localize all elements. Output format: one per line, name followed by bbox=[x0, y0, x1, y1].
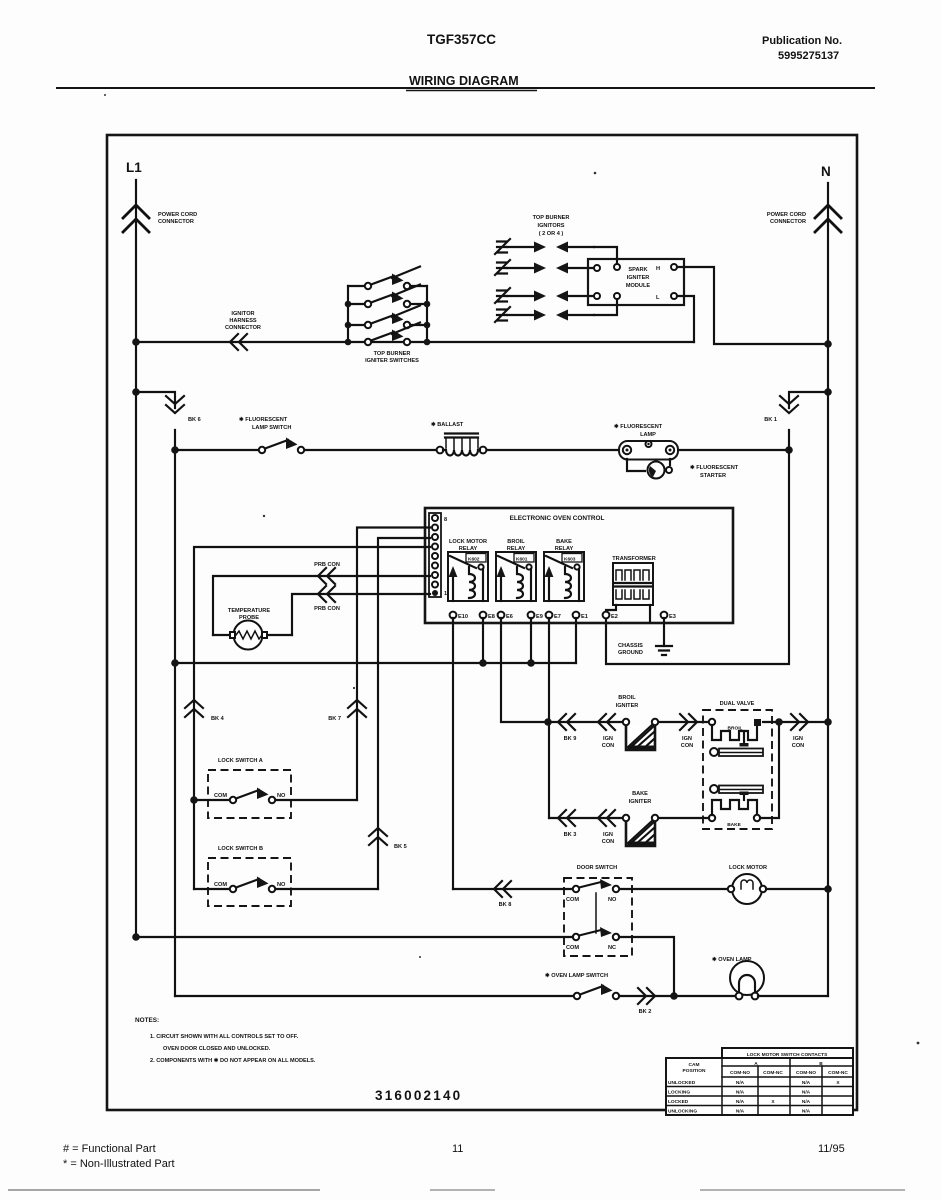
svg-text:SPARK: SPARK bbox=[628, 267, 647, 273]
svg-text:POWER CORD: POWER CORD bbox=[158, 212, 197, 218]
wire module H to N bus bbox=[677, 267, 828, 344]
EOC terminal E10 bbox=[450, 612, 468, 620]
EOC terminal E2 bbox=[603, 612, 618, 620]
wire E9 drop bbox=[530, 618, 532, 663]
svg-text:CHASSIS: CHASSIS bbox=[618, 643, 643, 649]
svg-text:BROIL: BROIL bbox=[507, 539, 525, 545]
wire door NC to oven lamp row bbox=[619, 937, 674, 996]
svg-text:BK 4: BK 4 bbox=[211, 716, 225, 722]
svg-text:UNLOCKING: UNLOCKING bbox=[668, 1109, 697, 1115]
svg-text:COM: COM bbox=[566, 945, 579, 951]
connector BK3 chevrons bbox=[558, 810, 576, 838]
connector BK7 chevrons up bbox=[328, 700, 366, 722]
svg-text:N/A: N/A bbox=[736, 1109, 745, 1115]
scan specks bbox=[104, 94, 919, 1044]
svg-text:CAM: CAM bbox=[689, 1062, 700, 1068]
svg-text:E1: E1 bbox=[581, 614, 588, 620]
spark igniter module U1 bbox=[588, 259, 684, 305]
publication number bbox=[762, 35, 842, 62]
bake row wire bbox=[549, 817, 709, 819]
svg-text:K602: K602 bbox=[468, 557, 480, 563]
svg-text:IGNITER: IGNITER bbox=[616, 703, 639, 709]
wire E7 drop to bake row bbox=[548, 618, 550, 818]
svg-text:BK 8: BK 8 bbox=[499, 902, 512, 908]
svg-text:E7: E7 bbox=[554, 614, 561, 620]
svg-text:POWER CORD: POWER CORD bbox=[767, 212, 806, 218]
junction H wire / N bus bbox=[824, 340, 832, 348]
wire E8 drop bbox=[482, 618, 484, 663]
wire E1 drop bbox=[575, 618, 577, 663]
svg-text:NOTES:: NOTES: bbox=[135, 1017, 159, 1024]
svg-text:E6: E6 bbox=[506, 614, 513, 620]
bake igniter bbox=[623, 791, 658, 846]
fluorescent starter bbox=[627, 459, 739, 479]
svg-text:BK 1: BK 1 bbox=[764, 417, 777, 423]
ignitor harness connector chevrons bbox=[225, 311, 261, 350]
ignition switch 3 bbox=[348, 306, 427, 329]
ballast L1a bbox=[431, 421, 486, 456]
lock switch A bbox=[190, 758, 357, 818]
junction L1 bus / BK6 branch bbox=[132, 388, 140, 396]
svg-text:IGN: IGN bbox=[793, 736, 803, 742]
svg-text:BROIL: BROIL bbox=[618, 695, 636, 701]
oven lamp bbox=[712, 956, 828, 999]
svg-text:BK 5: BK 5 bbox=[394, 844, 407, 850]
wire module L to main row bbox=[677, 296, 694, 342]
svg-text:1. CIRCUIT SHOWN WITH ALL CON: 1. CIRCUIT SHOWN WITH ALL CONTROLS SET T… bbox=[150, 1034, 299, 1040]
svg-text:STARTER: STARTER bbox=[700, 473, 726, 479]
junction L1 / 937 row bbox=[132, 933, 140, 941]
EOC terminal E7 bbox=[546, 612, 561, 620]
svg-text:IGN: IGN bbox=[603, 736, 613, 742]
svg-text:✱ BALLAST: ✱ BALLAST bbox=[431, 421, 464, 428]
svg-text:COM: COM bbox=[214, 882, 227, 888]
label top burner igniter switches bbox=[365, 351, 419, 364]
svg-text:OVEN DOOR CLOSED AND UNLOCKED.: OVEN DOOR CLOSED AND UNLOCKED. bbox=[163, 1046, 271, 1052]
wire pin4 to BK4 bus bbox=[194, 547, 430, 889]
svg-text:N/A: N/A bbox=[802, 1099, 811, 1105]
svg-text:LOCK SWITCH A: LOCK SWITCH A bbox=[218, 758, 263, 764]
junction valve common bbox=[775, 718, 783, 726]
svg-text:BK 2: BK 2 bbox=[639, 1009, 652, 1015]
power cord connector (L1) bbox=[123, 205, 197, 232]
bake valve solenoid bbox=[709, 800, 760, 828]
svg-text:LAMP: LAMP bbox=[640, 432, 656, 438]
wire BK6 bus vertical bbox=[174, 430, 176, 996]
svg-text:PRB CON: PRB CON bbox=[314, 562, 340, 568]
svg-text:COM-NO: COM-NO bbox=[796, 1070, 816, 1076]
lock motor relay K602 bbox=[448, 539, 488, 601]
EOC terminal E9 bbox=[528, 612, 543, 620]
transformer T1 bbox=[606, 556, 656, 622]
wire neutral drop vertical to EOC E2 bbox=[606, 430, 789, 664]
temperature probe RT1 bbox=[213, 608, 292, 650]
wire main L1 row y342 bbox=[136, 341, 694, 343]
svg-text:CONNECTOR: CONNECTOR bbox=[158, 219, 194, 225]
svg-text:MODULE: MODULE bbox=[626, 283, 651, 289]
wire L1 bus vertical bbox=[135, 180, 137, 937]
svg-text:H: H bbox=[656, 266, 660, 272]
broil valve solenoid bbox=[709, 719, 761, 747]
svg-text:11: 11 bbox=[452, 1143, 463, 1155]
notes bbox=[135, 1017, 316, 1064]
svg-text:IGNITORS: IGNITORS bbox=[538, 223, 565, 229]
svg-text:UNLOCKED: UNLOCKED bbox=[668, 1080, 696, 1086]
door switch bbox=[453, 865, 731, 956]
svg-text:LOCK MOTOR: LOCK MOTOR bbox=[729, 865, 767, 871]
svg-text:BAKE: BAKE bbox=[727, 822, 741, 828]
top burner ignitor 1 bbox=[495, 239, 620, 270]
connector BK1 chevrons down bbox=[764, 396, 798, 423]
svg-text:✱ OVEN LAMP SWITCH: ✱ OVEN LAMP SWITCH bbox=[545, 972, 608, 979]
svg-text:LAMP SWITCH: LAMP SWITCH bbox=[252, 425, 291, 431]
wire L1 to BK6 drop bbox=[136, 392, 175, 408]
svg-text:N/A: N/A bbox=[802, 1080, 811, 1086]
bake relay K603 bbox=[544, 539, 584, 601]
wire N bus vertical bbox=[827, 183, 829, 996]
connector BK5 chevrons up bbox=[369, 828, 407, 850]
svg-text:IGN: IGN bbox=[682, 736, 692, 742]
bottom page edge line bbox=[8, 1189, 905, 1191]
svg-text:* = Non-Illustrated Part: * = Non-Illustrated Part bbox=[63, 1158, 175, 1170]
svg-text:LOCKED: LOCKED bbox=[668, 1099, 689, 1105]
svg-text:1: 1 bbox=[444, 591, 447, 597]
svg-text:NO: NO bbox=[277, 793, 286, 799]
svg-text:COM: COM bbox=[214, 793, 227, 799]
svg-text:COM: COM bbox=[566, 897, 579, 903]
svg-text:CONNECTOR: CONNECTOR bbox=[225, 325, 261, 331]
svg-text:TOP BURNER: TOP BURNER bbox=[533, 215, 570, 221]
svg-text:N: N bbox=[821, 164, 831, 179]
svg-text:CON: CON bbox=[602, 743, 614, 749]
chassis ground bbox=[618, 618, 672, 656]
connector BK2 chevrons bbox=[619, 988, 739, 1015]
svg-text:2. COMPONENTS WITH ✱ DO NOT A: 2. COMPONENTS WITH ✱ DO NOT APPEAR ON AL… bbox=[150, 1057, 316, 1064]
fluorescent lamp switch S1 bbox=[239, 416, 304, 453]
junction fluor row / neutral drop bbox=[785, 446, 793, 454]
svg-text:GROUND: GROUND bbox=[618, 650, 643, 656]
svg-text:DUAL VALVE: DUAL VALVE bbox=[720, 701, 755, 707]
fluorescent lamp bbox=[614, 423, 678, 460]
EOC terminal E8 bbox=[480, 612, 495, 620]
svg-text:TEMPERATURE: TEMPERATURE bbox=[228, 608, 270, 614]
svg-text:IGNITER: IGNITER bbox=[629, 799, 652, 805]
wire E6 drop to broil row bbox=[501, 618, 548, 722]
svg-text:N/A: N/A bbox=[736, 1099, 745, 1105]
svg-text:✱ FLUORESCENT: ✱ FLUORESCENT bbox=[614, 423, 663, 430]
svg-text:COM-NC: COM-NC bbox=[828, 1070, 848, 1076]
wire pin3 to lock switch B bus bbox=[378, 538, 430, 889]
wire E10 drop to door switch row bbox=[452, 618, 454, 889]
header rule bbox=[56, 87, 875, 89]
svg-text:BAKE: BAKE bbox=[632, 791, 648, 797]
svg-text:N/A: N/A bbox=[736, 1090, 745, 1096]
svg-text:IGNITER: IGNITER bbox=[627, 275, 650, 281]
diagram border frame bbox=[107, 135, 857, 1110]
svg-text:DOOR SWITCH: DOOR SWITCH bbox=[577, 865, 617, 871]
svg-text:COM-NC: COM-NC bbox=[763, 1070, 783, 1076]
EOC terminal E3 bbox=[661, 612, 676, 620]
svg-text:CONNECTOR: CONNECTOR bbox=[770, 219, 806, 225]
svg-text:PRB CON: PRB CON bbox=[314, 606, 340, 612]
svg-text:TGF357CC: TGF357CC bbox=[427, 32, 496, 47]
ignition switch 4 bbox=[365, 323, 420, 346]
junction E9/663 bbox=[527, 659, 535, 667]
broil valve rod bbox=[710, 748, 763, 756]
svg-text:LOCK SWITCH B: LOCK SWITCH B bbox=[218, 846, 263, 852]
svg-text:TRANSFORMER: TRANSFORMER bbox=[612, 556, 656, 562]
EOC terminal E1 bbox=[573, 612, 588, 620]
svg-text:8: 8 bbox=[444, 517, 447, 523]
connector IGN CON broil right bbox=[680, 714, 697, 749]
lock switch B bbox=[194, 846, 378, 906]
svg-text:( 2 OR 4 ): ( 2 OR 4 ) bbox=[539, 231, 564, 237]
lock motor bbox=[728, 865, 828, 904]
svg-text:✱ FLUORESCENT: ✱ FLUORESCENT bbox=[690, 464, 739, 471]
EOC terminal E6 bbox=[498, 612, 513, 620]
svg-text:5995275137: 5995275137 bbox=[778, 50, 839, 62]
junction BK6/663 bbox=[171, 659, 179, 667]
svg-text:N/A: N/A bbox=[802, 1090, 811, 1096]
junction BK6 / fluor row bbox=[171, 446, 179, 454]
oven lamp switch bbox=[175, 972, 619, 999]
svg-text:316002140: 316002140 bbox=[375, 1088, 462, 1103]
svg-text:K603: K603 bbox=[564, 557, 576, 563]
electronic oven control box bbox=[425, 508, 733, 623]
junction L1/main row bbox=[132, 338, 140, 346]
top burner ignitor 3 bbox=[495, 288, 600, 303]
wire PRB CON upper bbox=[213, 562, 430, 635]
ignition switch 1 bbox=[348, 267, 427, 290]
broil row wire bbox=[548, 721, 828, 723]
svg-text:N/A: N/A bbox=[802, 1109, 811, 1115]
svg-text:IGN: IGN bbox=[603, 832, 613, 838]
junction E8/663 bbox=[479, 659, 487, 667]
svg-text:NO: NO bbox=[277, 882, 286, 888]
svg-text:K601: K601 bbox=[516, 557, 528, 563]
svg-text:COM-NO: COM-NO bbox=[730, 1070, 750, 1076]
svg-text:TOP BURNER: TOP BURNER bbox=[374, 351, 411, 357]
svg-text:BK 3: BK 3 bbox=[564, 832, 577, 838]
connector BK9 chevrons bbox=[558, 714, 576, 742]
footer legend bbox=[63, 1143, 175, 1170]
svg-text:IGNITOR: IGNITOR bbox=[231, 311, 254, 317]
svg-text:IGNITER SWITCHES: IGNITER SWITCHES bbox=[365, 358, 419, 364]
svg-text:E3: E3 bbox=[669, 614, 676, 620]
svg-text:✱ FLUORESCENT: ✱ FLUORESCENT bbox=[239, 416, 288, 423]
svg-text:NC: NC bbox=[608, 945, 616, 951]
label top burner ignitors bbox=[533, 215, 570, 237]
svg-text:PROBE: PROBE bbox=[239, 615, 259, 621]
junction lock motor / N bus bbox=[824, 885, 832, 893]
svg-text:E9: E9 bbox=[536, 614, 543, 620]
svg-text:Publication No.: Publication No. bbox=[762, 35, 842, 47]
junction oven lamp row / door NC drop bbox=[670, 992, 678, 1000]
svg-text:CON: CON bbox=[602, 839, 614, 845]
wire PRB CON lower bbox=[292, 586, 430, 635]
svg-text:L: L bbox=[656, 295, 660, 301]
svg-text:POSITION: POSITION bbox=[683, 1068, 706, 1074]
svg-text:BK 9: BK 9 bbox=[564, 736, 577, 742]
svg-text:BK 6: BK 6 bbox=[188, 417, 201, 423]
svg-text:N/A: N/A bbox=[736, 1080, 745, 1086]
svg-text:CON: CON bbox=[792, 743, 804, 749]
svg-text:11/95: 11/95 bbox=[818, 1143, 845, 1155]
top burner ignitor 4 bbox=[495, 293, 620, 322]
svg-text:BROIL: BROIL bbox=[728, 726, 743, 732]
junction N bus / BK1 branch bbox=[824, 388, 832, 396]
wire common row y663 bbox=[175, 662, 576, 664]
svg-text:WIRING DIAGRAM: WIRING DIAGRAM bbox=[409, 74, 519, 88]
svg-text:BAKE: BAKE bbox=[556, 539, 572, 545]
wire N bus to BK1 drop bbox=[789, 392, 828, 408]
svg-text:E10: E10 bbox=[458, 614, 468, 620]
connector IGN CON broil left bbox=[598, 714, 615, 749]
ignition switch 2 bbox=[348, 285, 427, 308]
svg-text:E2: E2 bbox=[611, 614, 618, 620]
EOC connector strip P1 bbox=[429, 513, 447, 597]
power cord connector (N) bbox=[767, 205, 841, 232]
connector BK4 chevrons up bbox=[185, 700, 225, 722]
svg-text:CON: CON bbox=[681, 743, 693, 749]
junction broil row start bbox=[544, 718, 552, 726]
svg-text:NO: NO bbox=[608, 897, 617, 903]
svg-text:L1: L1 bbox=[126, 160, 142, 175]
wire pin2 to BK7 bus bbox=[357, 528, 430, 801]
dual valve box bbox=[703, 701, 772, 829]
svg-text:LOCK MOTOR: LOCK MOTOR bbox=[449, 539, 487, 545]
wire valve common loop bbox=[760, 722, 779, 818]
wire L1 end to door switch COM bbox=[136, 936, 573, 938]
top burner ignitor 2 bbox=[495, 260, 600, 275]
lock motor switch contacts table bbox=[666, 1048, 853, 1115]
broil relay K601 bbox=[496, 539, 536, 601]
bake valve rod bbox=[710, 785, 763, 800]
connector BK6 chevrons down bbox=[166, 396, 201, 423]
wire fluorescent row bbox=[175, 449, 789, 451]
svg-text:LOCK MOTOR SWITCH CONTACTS: LOCK MOTOR SWITCH CONTACTS bbox=[747, 1052, 828, 1058]
svg-text:BK 7: BK 7 bbox=[328, 716, 341, 722]
junction broil row / N bus bbox=[824, 718, 832, 726]
top burner ignition switches block buses bbox=[345, 286, 431, 345]
svg-text:E8: E8 bbox=[488, 614, 495, 620]
connector IGN CON valve right bbox=[791, 714, 808, 749]
svg-text:HARNESS: HARNESS bbox=[229, 318, 257, 324]
svg-text:ELECTRONIC OVEN CONTROL: ELECTRONIC OVEN CONTROL bbox=[510, 515, 605, 522]
svg-text:# = Functional Part: # = Functional Part bbox=[63, 1143, 156, 1155]
svg-text:LOCKING: LOCKING bbox=[668, 1090, 690, 1096]
broil igniter bbox=[616, 695, 659, 750]
connector IGN CON bake left bbox=[598, 810, 615, 845]
